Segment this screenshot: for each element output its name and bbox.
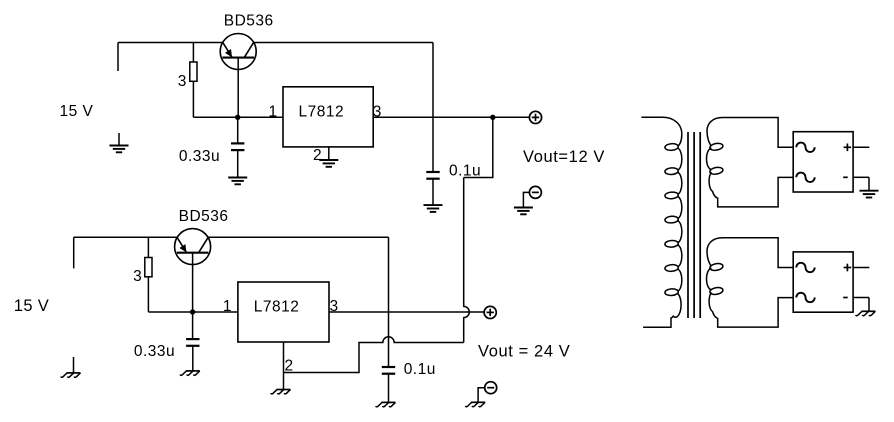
wire C2 to ground	[432, 179, 434, 205]
wire R1 to node A	[192, 81, 194, 117]
wire vertical interconnect with hop over 24V output	[464, 178, 470, 343]
minus mark	[843, 176, 848, 178]
svg-text:Vout=12 V: Vout=12 V	[523, 148, 605, 166]
minus mark	[843, 297, 848, 299]
svg-text:3: 3	[178, 73, 187, 90]
negative terminal 12V	[529, 186, 541, 198]
ground negative terminal	[514, 208, 533, 215]
ground rectifier output	[860, 191, 879, 198]
ground negative terminal bottom	[465, 402, 485, 406]
wire - output	[853, 297, 869, 299]
junction node B	[190, 309, 195, 314]
svg-text:15 V: 15 V	[60, 103, 94, 120]
ground C1	[228, 178, 247, 185]
wire node B to U2 pin1	[148, 311, 238, 313]
wire Q1 base down to node A	[237, 58, 239, 118]
ground input reference	[110, 146, 129, 153]
plus mark	[844, 264, 852, 272]
wire - output	[853, 176, 869, 178]
wire rail Q1 collector to output branch	[254, 42, 433, 44]
primary turn loop	[665, 192, 679, 200]
ground C4	[376, 402, 396, 406]
wire C3 to ground	[192, 346, 194, 371]
wire C4 to ground	[388, 374, 390, 403]
svg-text:2: 2	[313, 147, 322, 164]
wire node A to U1 pin1	[193, 116, 283, 118]
ac input mark lower	[796, 293, 814, 302]
ac input mark lower	[796, 173, 814, 182]
ground C2	[424, 205, 443, 212]
svg-text:1: 1	[268, 103, 277, 120]
resistor R1 3	[190, 62, 197, 81]
primary turn loop	[665, 143, 679, 151]
junction node A	[235, 115, 240, 120]
capacitor C2 0.1u	[426, 172, 439, 179]
wire input stub bottom	[73, 237, 75, 268]
svg-text:Vout = 24 V: Vout = 24 V	[478, 343, 570, 361]
svg-text:0.33u: 0.33u	[134, 343, 175, 360]
wire node B to C3	[192, 312, 194, 339]
transformer secondary winding 2	[707, 238, 794, 327]
transformer secondary winding 1	[707, 118, 794, 207]
primary turn loop	[665, 240, 679, 248]
secondary turn loop	[709, 166, 723, 175]
wire + output	[853, 267, 869, 269]
wire - output to ground	[868, 298, 870, 311]
svg-text:L7812: L7812	[298, 104, 344, 121]
rectifier bridge B1	[793, 132, 853, 192]
svg-text:0.1u: 0.1u	[404, 361, 436, 378]
wire R2 to node B	[147, 277, 149, 312]
wire U2 pin2 down to ground	[283, 342, 285, 390]
op-amp U2 L7812 regulator box	[238, 282, 329, 342]
wire U1 pin3 output	[373, 116, 529, 118]
wire rail to R1	[192, 43, 194, 63]
wire negative terminal to ground bottom	[478, 388, 485, 403]
wire C1 to ground	[237, 150, 239, 177]
op-amp U1 L7812 regulator box	[283, 87, 373, 147]
svg-text:15 V: 15 V	[14, 297, 49, 315]
svg-text:2: 2	[285, 358, 294, 375]
wire + output	[853, 146, 869, 148]
secondary turn loop	[709, 263, 723, 272]
ac input mark upper	[796, 143, 814, 152]
positive terminal Vout 12V	[529, 111, 541, 123]
ac input mark upper	[796, 263, 814, 272]
emitter arrow	[225, 49, 232, 57]
ground U1 pin2	[319, 160, 338, 167]
primary turn loop	[665, 264, 679, 272]
wire U1 pin2 to ground	[328, 147, 330, 160]
svg-text:0.33u: 0.33u	[179, 148, 220, 165]
transistor Q2 BD536	[175, 229, 211, 265]
wire input rail left (15V to Q1 emitter)	[118, 42, 223, 44]
rectifier bridge B2	[793, 252, 853, 312]
positive terminal Vout 24V	[484, 306, 496, 318]
capacitor C1 0.33u	[231, 143, 244, 150]
transformer primary winding	[641, 117, 681, 327]
ground rectifier output	[856, 311, 876, 315]
primary turn loop	[665, 288, 679, 296]
wire output node step down	[464, 117, 493, 177]
svg-text:BD536: BD536	[179, 208, 229, 225]
wire ground stub	[118, 133, 120, 146]
wire node A to C1	[237, 117, 239, 143]
transformer core	[688, 132, 700, 318]
junction output node	[490, 115, 495, 120]
ground C3	[180, 371, 200, 375]
wire rail Q2 collector to branch	[208, 236, 388, 238]
svg-text:L7812: L7812	[254, 299, 300, 316]
wire branch down to C4	[388, 237, 390, 367]
wire negative terminal to ground	[523, 192, 529, 207]
capacitor C3 0.33u	[186, 339, 199, 346]
wire Q2 base down to node B	[192, 253, 194, 312]
wire interconnect horizontal with hop over C4 line	[284, 337, 464, 373]
wire rail to R2	[147, 237, 149, 257]
ground input reference bottom	[61, 373, 81, 377]
svg-text:1: 1	[223, 298, 232, 315]
primary turn loop	[665, 216, 679, 224]
ground U2 pin2	[271, 390, 291, 394]
wire branch down to C2	[432, 43, 434, 173]
wire - output to ground	[868, 177, 870, 190]
resistor R2 3	[145, 258, 152, 277]
plus mark	[844, 144, 852, 152]
secondary turn loop	[709, 287, 723, 296]
wire U2 pin3 output to terminal	[329, 311, 484, 313]
svg-text:3: 3	[133, 268, 142, 285]
transistor Q1 BD536	[220, 34, 256, 70]
wire input stub	[117, 43, 119, 72]
primary turn loop	[665, 167, 679, 175]
emitter arrow	[179, 244, 186, 252]
negative terminal 24V	[485, 382, 497, 394]
wire input rail left bottom	[74, 236, 177, 238]
capacitor C4 0.1u	[382, 367, 395, 374]
secondary turn loop	[709, 142, 723, 151]
svg-text:BD536: BD536	[224, 13, 274, 30]
wire ground stub bottom	[73, 357, 75, 373]
